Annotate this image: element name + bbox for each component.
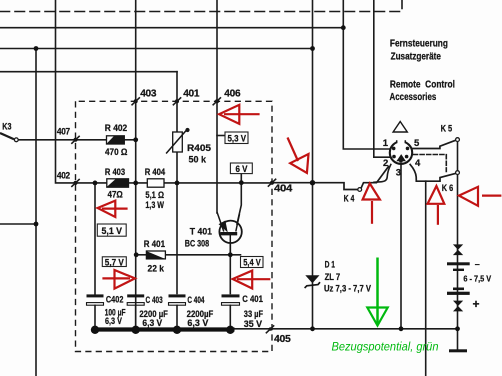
svg-text:5,7 V: 5,7 V [105, 257, 125, 268]
svg-text:Bezugspotential, grün: Bezugspotential, grün [332, 340, 439, 354]
svg-text:407: 407 [57, 127, 70, 138]
svg-text:6,3 V: 6,3 V [105, 316, 122, 326]
svg-text:+: + [473, 297, 480, 311]
svg-text:2: 2 [383, 158, 388, 169]
svg-text:401: 401 [183, 87, 199, 99]
svg-text:406: 406 [224, 87, 240, 99]
svg-text:R 403: R 403 [105, 167, 125, 178]
svg-text:BC 308: BC 308 [185, 239, 209, 250]
svg-text:3: 3 [396, 167, 401, 178]
svg-text:Remote Control: Remote Control [390, 79, 455, 90]
svg-text:404: 404 [274, 183, 292, 195]
svg-text:1,3 W: 1,3 W [145, 200, 164, 211]
svg-text:C402: C402 [106, 295, 124, 305]
svg-text:35 V: 35 V [244, 319, 262, 329]
svg-text:R 404: R 404 [145, 167, 166, 178]
svg-text:5: 5 [414, 138, 420, 149]
svg-text:C 404: C 404 [187, 295, 204, 305]
svg-text:K 4: K 4 [344, 193, 355, 203]
svg-text:C 401: C 401 [242, 294, 263, 304]
svg-text:K 5: K 5 [441, 124, 453, 134]
svg-text:Accessories: Accessories [390, 92, 437, 103]
svg-text:33 µF: 33 µF [244, 309, 264, 319]
svg-text:402: 402 [57, 170, 70, 181]
svg-text:K 6: K 6 [442, 183, 453, 193]
svg-text:D 1: D 1 [325, 259, 335, 269]
svg-text:C 403: C 403 [146, 295, 163, 305]
svg-text:4: 4 [415, 158, 421, 169]
svg-text:470 Ω: 470 Ω [105, 147, 128, 158]
svg-text:6,3 V: 6,3 V [187, 318, 208, 328]
svg-text:ZL 7: ZL 7 [325, 272, 341, 282]
svg-text:405: 405 [274, 333, 291, 345]
svg-text:403: 403 [140, 87, 156, 99]
svg-text:50 k: 50 k [189, 154, 207, 165]
svg-text:6,3 V: 6,3 V [142, 318, 162, 328]
svg-text:1: 1 [383, 138, 389, 149]
svg-text:R 402: R 402 [105, 123, 127, 134]
svg-text:6 V: 6 V [236, 164, 249, 175]
svg-text:R 401: R 401 [144, 239, 166, 250]
svg-text:5,4 V: 5,4 V [243, 258, 261, 269]
svg-text:Uz 7,3 - 7,7 V: Uz 7,3 - 7,7 V [324, 284, 371, 294]
svg-text:R405: R405 [187, 143, 212, 154]
svg-text:22 k: 22 k [148, 264, 165, 275]
svg-text:K3: K3 [2, 121, 11, 131]
svg-text:47Ω: 47Ω [108, 190, 124, 201]
svg-text:T 401: T 401 [190, 227, 213, 238]
svg-text:Fernsteuerung: Fernsteuerung [390, 39, 448, 50]
svg-text:5,1 V: 5,1 V [102, 226, 123, 237]
svg-text:6 - 7,5 V: 6 - 7,5 V [463, 274, 491, 283]
svg-text:5,3 V: 5,3 V [228, 134, 247, 145]
svg-text:Zusatzgeräte: Zusatzgeräte [391, 52, 442, 63]
svg-text:–: – [475, 259, 480, 269]
